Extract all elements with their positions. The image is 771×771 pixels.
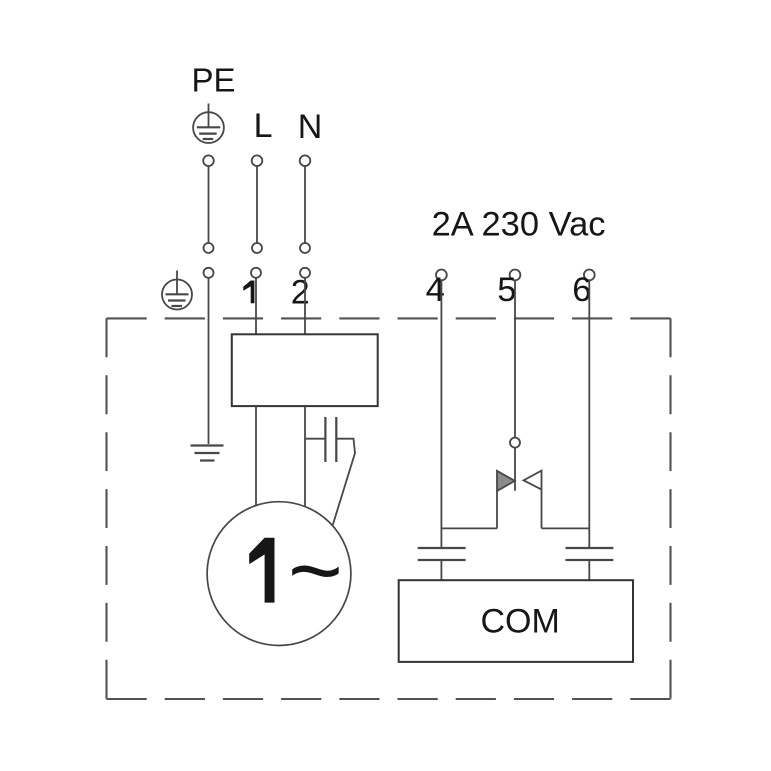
valve left triangle (filled) <box>497 471 515 491</box>
svg-text:L: L <box>254 107 273 145</box>
wire valve to 6 <box>542 527 590 529</box>
motor label 1 (footless arial-style digit drawn as path) <box>249 538 274 603</box>
socket terminal 2 <box>300 268 310 278</box>
svg-text:2: 2 <box>291 274 310 312</box>
wire PE cable <box>208 166 210 243</box>
plug terminal L <box>252 243 262 253</box>
pilot terminal circle on wire 5 <box>510 438 520 448</box>
wire L cable <box>256 166 258 243</box>
wire 1 to terminal block <box>255 278 257 335</box>
dashed enclosure box left edge <box>105 318 107 699</box>
plug terminal N <box>300 243 310 253</box>
svg-text:2A 230 Vac: 2A 230 Vac <box>432 206 606 244</box>
svg-text:PE: PE <box>192 62 236 99</box>
capacitor on wire 6 <box>566 548 614 560</box>
wire 4 capacitor to COM box <box>440 560 442 580</box>
terminal block <box>232 334 378 406</box>
dashed enclosure box right edge <box>669 318 671 699</box>
terminal circle PE top <box>203 155 214 166</box>
motor circle M 1~ <box>207 502 351 646</box>
socket terminal PE <box>204 268 214 278</box>
svg-text:~: ~ <box>288 518 343 623</box>
terminal circle L top <box>252 155 263 166</box>
chassis protective earth symbol (circled) left of PE wire <box>162 271 192 310</box>
label terminal 1 (footless arial-style digit drawn as path) <box>243 281 254 304</box>
wire 2 to terminal block <box>304 278 306 335</box>
wire 2 block to motor <box>304 406 306 506</box>
ground symbol <box>191 446 224 461</box>
socket terminal 1 <box>251 268 261 278</box>
dashed enclosure box bottom edge <box>107 698 671 700</box>
terminal circle 4 <box>436 270 447 281</box>
wire 6 <box>588 280 590 548</box>
COM box <box>399 580 633 662</box>
wire N cable <box>304 166 306 243</box>
wire 6 capacitor to COM box <box>588 560 590 580</box>
svg-text:COM: COM <box>481 603 560 641</box>
wire 1 block to motor <box>255 406 257 506</box>
capacitor plates <box>325 417 336 462</box>
terminal circle 5 <box>510 270 521 281</box>
svg-text:N: N <box>298 108 323 146</box>
wire capacitor to motor aux winding <box>332 439 355 527</box>
capacitor on wire 4 <box>418 548 466 560</box>
protective earth symbol (circled) below PE <box>193 104 224 144</box>
wire 4 branch to valve left <box>441 527 497 529</box>
valve stem wire 5 <box>514 448 516 491</box>
wire PE down to ground <box>208 278 210 444</box>
plug terminal PE <box>204 243 214 253</box>
valve right leg <box>541 490 543 529</box>
terminal circle 6 <box>584 270 595 281</box>
valve left leg <box>496 491 498 529</box>
wire 5 upper <box>514 280 516 437</box>
wire node 2 to capacitor <box>305 438 325 440</box>
dashed enclosure box top edge <box>107 317 671 319</box>
wire 4 <box>440 280 442 548</box>
svg-text:5: 5 <box>497 271 516 309</box>
terminal circle N top <box>300 155 311 166</box>
valve right triangle (open) <box>524 471 542 490</box>
